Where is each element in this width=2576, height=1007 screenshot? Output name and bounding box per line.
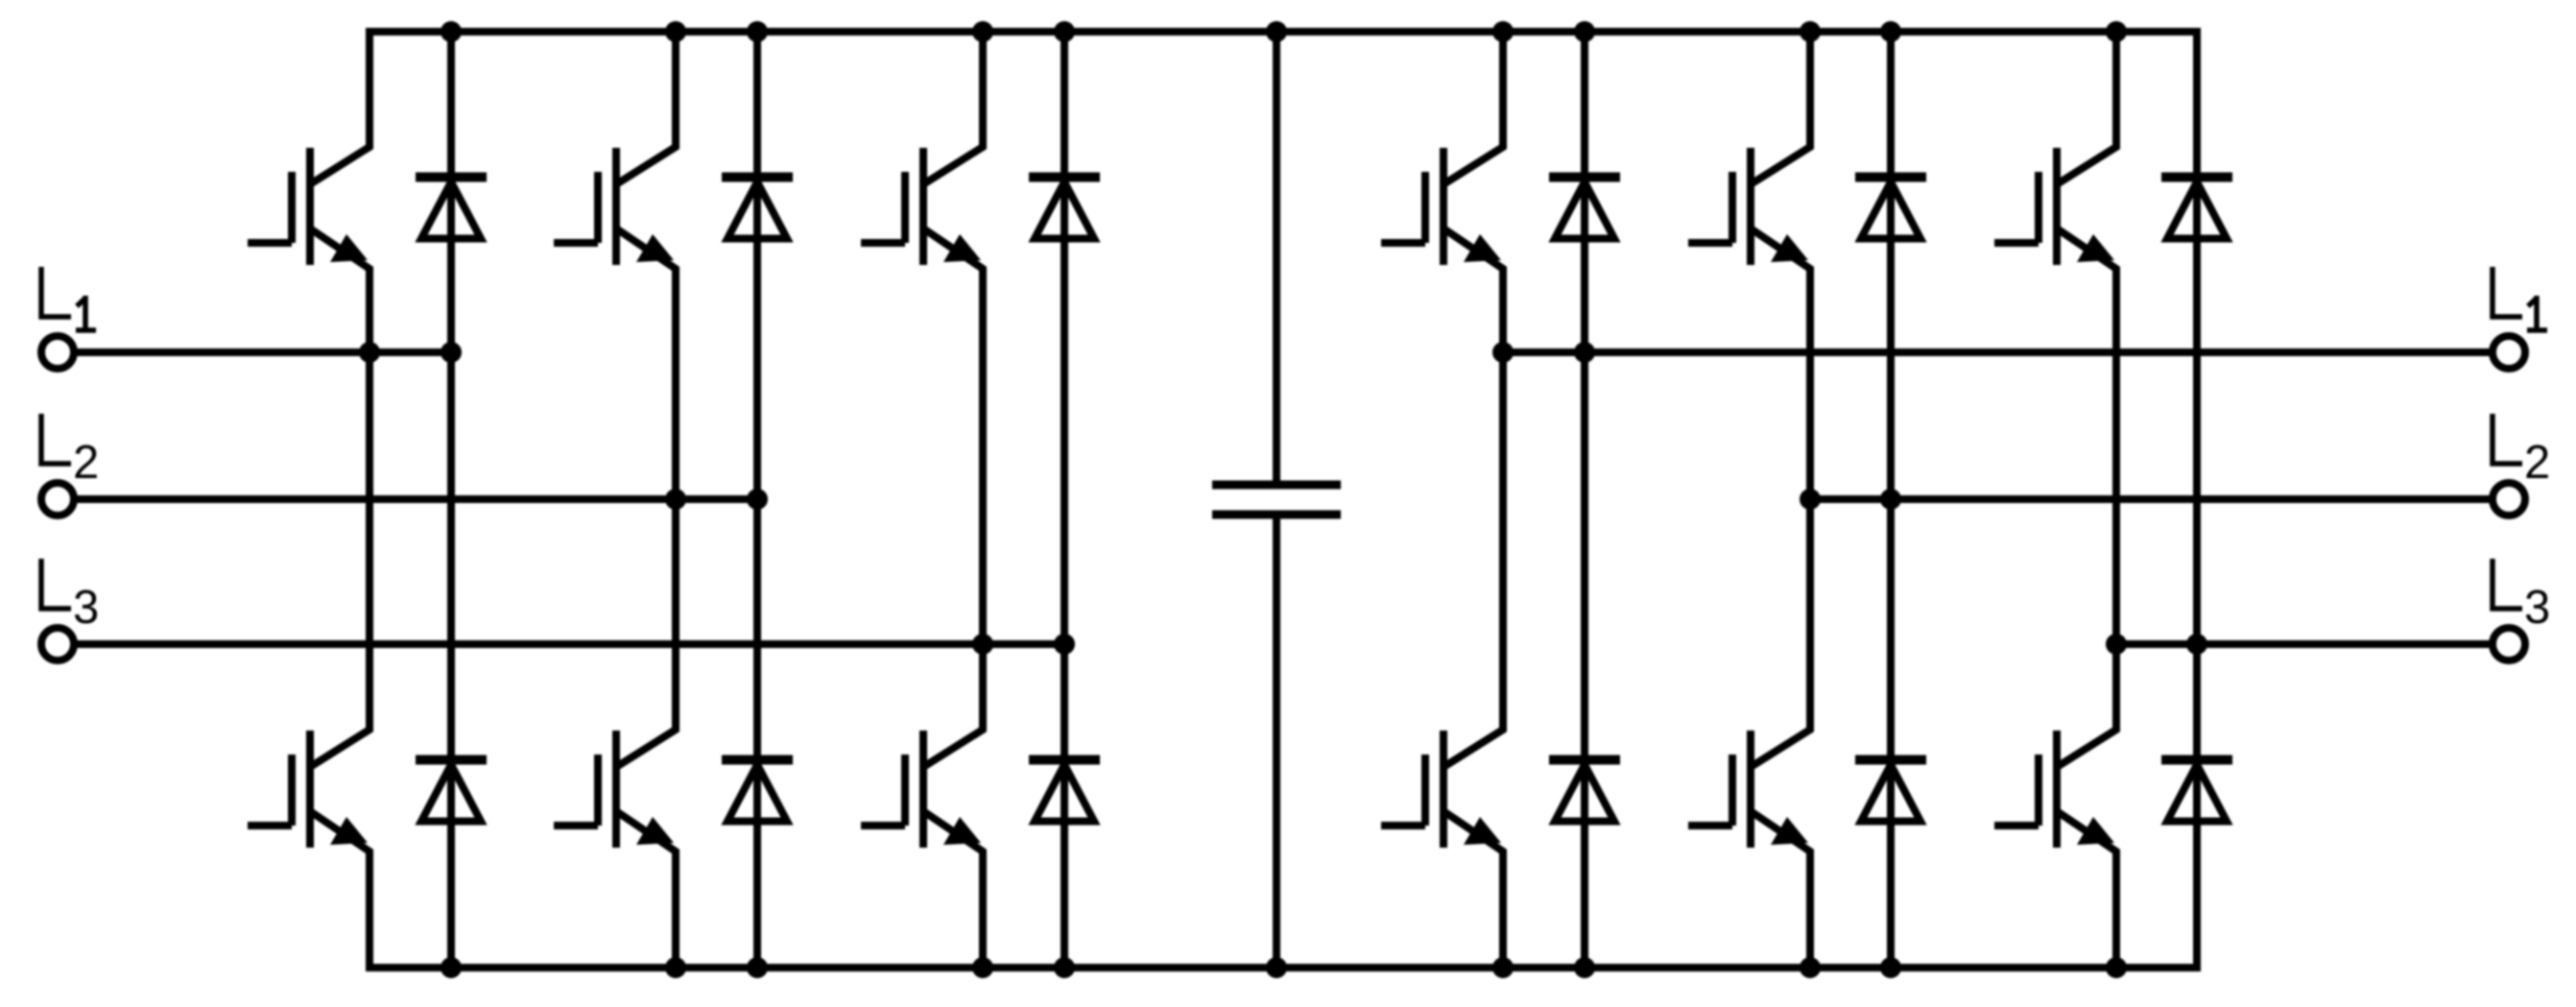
junction: leg1 diode to DC- rail: [441, 957, 462, 978]
terminal L1 right: [2493, 336, 2525, 369]
wire: leg6 diode column: [2193, 32, 2201, 968]
transistor Q6 (leg3 bottom IGBT): [861, 722, 983, 859]
svg-text:2: 2: [73, 437, 99, 489]
junction: leg3 IGBT to DC+ rail: [972, 21, 993, 42]
junction: leg6 IGBT to DC+ rail: [2106, 21, 2127, 42]
wire: leg4 IGBT column: [1499, 32, 1507, 968]
junction: leg5 diode to DC+ rail: [1880, 21, 1901, 42]
junction: node L3 left at leg3 IGBT: [972, 634, 993, 655]
junction: node L2 right at leg5 diode: [1880, 489, 1901, 510]
wire: leg1 diode column: [447, 32, 455, 968]
transistor Q4 (leg2 bottom IGBT): [554, 722, 676, 859]
junction: leg2 IGBT to DC- rail: [665, 957, 686, 978]
node label L3 left: [41, 559, 99, 634]
transistor Q3 (leg2 top IGBT): [554, 139, 676, 276]
junction: leg5 IGBT to DC+ rail: [1800, 21, 1821, 42]
junction: node L1 left at leg1 IGBT: [359, 342, 380, 363]
junction: leg5 IGBT to DC- rail: [1800, 957, 1821, 978]
diode D8 (leg4 bottom): [1549, 760, 1620, 822]
wire: phase line L1 right: [1503, 348, 2509, 356]
junction: leg3 IGBT to DC- rail: [972, 957, 993, 978]
junction: capacitor C1 to DC+ rail: [1266, 21, 1287, 42]
wire: phase line L3 left: [58, 640, 1064, 648]
junction: leg6 IGBT to DC- rail: [2106, 957, 2127, 978]
wire: leg5 IGBT column: [1806, 32, 1814, 968]
transistor Q2 (leg1 bottom IGBT): [248, 722, 370, 859]
diode D3 (leg2 top): [722, 178, 793, 239]
terminal L2 left: [41, 483, 74, 515]
junction: leg3 diode to DC- rail: [1054, 957, 1075, 978]
junction: leg5 diode to DC- rail: [1880, 957, 1901, 978]
node label L1 right: [2493, 267, 2547, 330]
junction: capacitor C1 to DC- rail: [1266, 957, 1287, 978]
transistor Q12 (leg6 bottom IGBT): [1994, 722, 2116, 859]
wire: leg4 diode column: [1581, 32, 1588, 968]
junction: leg2 IGBT to DC+ rail: [665, 21, 686, 42]
diode D6 (leg3 bottom): [1029, 760, 1100, 822]
diode D4 (leg2 bottom): [722, 760, 793, 822]
junction: leg1 diode to DC+ rail: [441, 21, 462, 42]
transistor Q5 (leg3 top IGBT): [861, 139, 983, 276]
junction: leg3 diode to DC+ rail: [1054, 21, 1075, 42]
junction: leg4 IGBT to DC- rail: [1492, 957, 1514, 978]
junction: node L2 left at leg2 IGBT: [665, 489, 686, 510]
diode D12 (leg6 bottom): [2161, 760, 2232, 822]
wire: leg1 IGBT column: [366, 32, 373, 968]
wire: phase line L1 left: [58, 348, 451, 356]
diode D11 (leg6 top): [2161, 178, 2232, 239]
wire: leg5 diode column: [1887, 32, 1895, 968]
junction: leg2 diode to DC- rail: [747, 957, 768, 978]
wire: leg6 IGBT column: [2112, 32, 2120, 968]
transistor Q1 (leg1 top IGBT): [248, 139, 370, 276]
wire: leg3 diode column: [1061, 32, 1068, 968]
wire: leg2 diode column: [753, 32, 761, 968]
terminal L1 left: [41, 336, 74, 369]
junction: node L3 right at leg6 IGBT: [2106, 634, 2127, 655]
junction: leg4 diode to DC- rail: [1574, 957, 1595, 978]
junction: node L3 left at leg3 diode: [1054, 634, 1075, 655]
transistor Q7 (leg4 top IGBT): [1381, 139, 1503, 276]
terminal L2 right: [2493, 483, 2525, 515]
node label L3 right: [2493, 559, 2550, 634]
diode D9 (leg5 top): [1855, 178, 1926, 239]
node label L1 left: [41, 267, 96, 330]
diode D1 (leg1 top): [416, 178, 487, 239]
transistor Q8 (leg4 bottom IGBT): [1381, 722, 1503, 859]
svg-text:3: 3: [73, 582, 99, 634]
wire: leg3 IGBT column: [979, 32, 987, 968]
wire: phase line L3 right: [2116, 640, 2509, 648]
node label L2 right: [2493, 414, 2550, 489]
diode D10 (leg5 bottom): [1855, 760, 1926, 822]
wire: leg2 IGBT column: [672, 32, 680, 968]
terminal L3 left: [41, 628, 74, 660]
junction: leg4 IGBT to DC+ rail: [1492, 21, 1514, 42]
wire: phase line L2 left: [58, 495, 757, 503]
junction: leg4 diode to DC+ rail: [1574, 21, 1595, 42]
terminal L3 right: [2493, 628, 2525, 660]
junction: node L2 left at leg2 diode: [747, 489, 768, 510]
junction: node L2 right at leg5 IGBT: [1800, 489, 1821, 510]
capacitor C1 wires: [1273, 32, 1280, 968]
transistor Q11 (leg6 top IGBT): [1994, 139, 2116, 276]
transistor Q10 (leg5 bottom IGBT): [1688, 722, 1810, 859]
junction: node L1 right at leg4 diode: [1574, 342, 1595, 363]
capacitor C1 plates: [1212, 485, 1341, 515]
wire: DC+ positive rail: [370, 32, 2197, 177]
junction: leg2 diode to DC+ rail: [747, 21, 768, 42]
svg-text:2: 2: [2524, 437, 2550, 489]
transistor Q9 (leg5 top IGBT): [1688, 139, 1810, 276]
wire: DC- negative rail: [370, 822, 2197, 968]
diode D2 (leg1 bottom): [416, 760, 487, 822]
diode D5 (leg3 top): [1029, 178, 1100, 239]
junction: node L3 right at leg6 diode: [2186, 634, 2207, 655]
diode D7 (leg4 top): [1549, 178, 1620, 239]
junction: node L1 right at leg4 IGBT: [1492, 342, 1514, 363]
svg-text:3: 3: [2524, 582, 2550, 634]
junction: node L1 left at leg1 diode: [441, 342, 462, 363]
wire: phase line L2 right: [1810, 495, 2509, 503]
node label L2 left: [41, 414, 99, 489]
